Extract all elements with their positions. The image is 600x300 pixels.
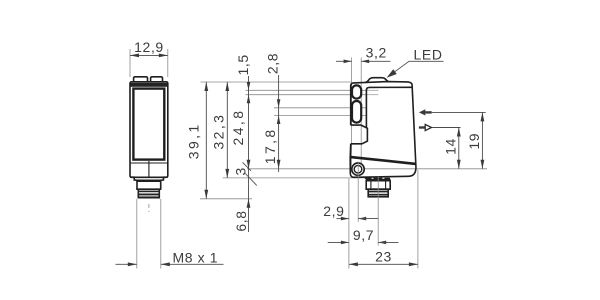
dimension M8x1 line right with arrow xyxy=(161,263,224,265)
front connector thread ridge 2 xyxy=(138,194,160,196)
separation slant line xyxy=(350,157,416,164)
front body outer rectangle xyxy=(130,82,168,178)
dimension 6,8 arrow xyxy=(247,199,251,208)
line L2 y=94.7 xyxy=(246,94,367,96)
dimension 17,8 bottom arrow xyxy=(277,160,281,169)
extension line front face bottom xyxy=(348,179,350,269)
front connector thread bottom bar xyxy=(139,196,160,198)
dimension 12,9 line xyxy=(130,54,168,56)
front line under window xyxy=(131,162,168,164)
dimension 1,5 column line xyxy=(248,76,250,232)
front body top bump left xyxy=(134,77,148,82)
front connector nut bottom edge xyxy=(136,188,161,190)
hole axis line y=168.8 xyxy=(247,168,487,170)
side connector nut xyxy=(366,180,390,190)
front inner window rectangle xyxy=(133,89,164,160)
side notch block xyxy=(351,125,368,144)
side inner top line xyxy=(366,87,411,128)
top reference line y=82 xyxy=(201,81,353,83)
dimension 24,8 bottom arrow xyxy=(247,160,251,169)
svg-text:9,7: 9,7 xyxy=(353,227,374,243)
dimension 9,7 xyxy=(328,241,349,243)
dimension 2,8 column line xyxy=(278,75,280,172)
front connector thread ridge 1 xyxy=(139,191,160,193)
svg-text:14: 14 xyxy=(442,138,458,155)
side thread ridge 1 xyxy=(368,191,388,193)
svg-text:6,8: 6,8 xyxy=(233,210,249,231)
svg-text:2,8: 2,8 xyxy=(265,53,281,74)
svg-text:24,8: 24,8 xyxy=(230,109,246,146)
front center dash mark xyxy=(148,204,150,212)
svg-text:17,8: 17,8 xyxy=(262,127,278,164)
side connector nut facet tabs xyxy=(365,177,390,179)
dimension M8x1 line left with arrow xyxy=(116,263,137,265)
svg-text:23: 23 xyxy=(375,248,392,264)
side front lower face xyxy=(349,144,352,158)
extension line hole center vertical xyxy=(357,162,359,223)
dimension 2,8 arrows xyxy=(277,99,281,108)
line L3 y=107.8 xyxy=(274,107,367,109)
M8 extension line left xyxy=(136,199,138,269)
dimension 23 xyxy=(349,263,418,265)
svg-text:1,5: 1,5 xyxy=(235,54,251,75)
dimension 2,9 xyxy=(337,218,349,220)
dimension 19 xyxy=(481,112,483,168)
line L4 y=115.5 xyxy=(274,115,367,117)
lower lens oval xyxy=(352,101,361,123)
front body dark top band xyxy=(131,83,168,87)
LED leader line xyxy=(392,61,444,74)
emitter beam arrow (filled, pointing left) xyxy=(419,109,426,115)
LED bump xyxy=(365,78,388,83)
front connector nut xyxy=(137,180,161,189)
M8 extension line right xyxy=(160,199,162,269)
side connector thread body xyxy=(368,189,388,197)
mounting hole outer xyxy=(352,163,364,175)
dimension 32,3 xyxy=(226,82,228,178)
svg-text:32,3: 32,3 xyxy=(211,113,227,150)
dimension 39,1 xyxy=(205,82,207,199)
line L1 y=90.3 xyxy=(246,89,367,91)
svg-text:M8 x 1: M8 x 1 xyxy=(173,250,219,266)
extension line connector center xyxy=(377,177,379,246)
side body outline xyxy=(350,82,416,178)
dimension 1,5 arrows xyxy=(247,82,251,90)
dimension 12,9 extension lines xyxy=(129,49,131,77)
receiver beam arrow (open, pointing right) xyxy=(419,126,425,128)
front body top bump right xyxy=(151,77,163,82)
bottom reference line y=198.8 xyxy=(200,198,252,200)
svg-text:3,2: 3,2 xyxy=(366,45,387,61)
dimension 12,9 arrows xyxy=(130,54,139,58)
dimension 3 oblique slash 1 xyxy=(243,162,252,171)
upper lens oval xyxy=(352,85,361,98)
LED leader arrowhead xyxy=(387,69,397,78)
extension line body right bottom xyxy=(417,170,419,269)
dimension 6,8 oblique slash 2 xyxy=(245,174,256,186)
dimension 3,2 line xyxy=(336,60,352,62)
side thread ridge 2 xyxy=(368,194,388,196)
svg-text:39,1: 39,1 xyxy=(186,122,202,159)
front connector thread body xyxy=(138,189,159,197)
dimension 14 xyxy=(458,128,460,169)
front center parting line xyxy=(148,161,150,177)
dimension 3,2 extension lines xyxy=(351,58,353,173)
svg-text:LED: LED xyxy=(414,47,443,63)
svg-text:12,9: 12,9 xyxy=(134,39,164,55)
front bottom step xyxy=(130,177,168,180)
svg-text:19: 19 xyxy=(466,133,482,150)
mounting hole inner xyxy=(354,165,362,173)
svg-text:2,9: 2,9 xyxy=(323,203,344,219)
nut-top reference line y=177.9 xyxy=(223,177,367,179)
